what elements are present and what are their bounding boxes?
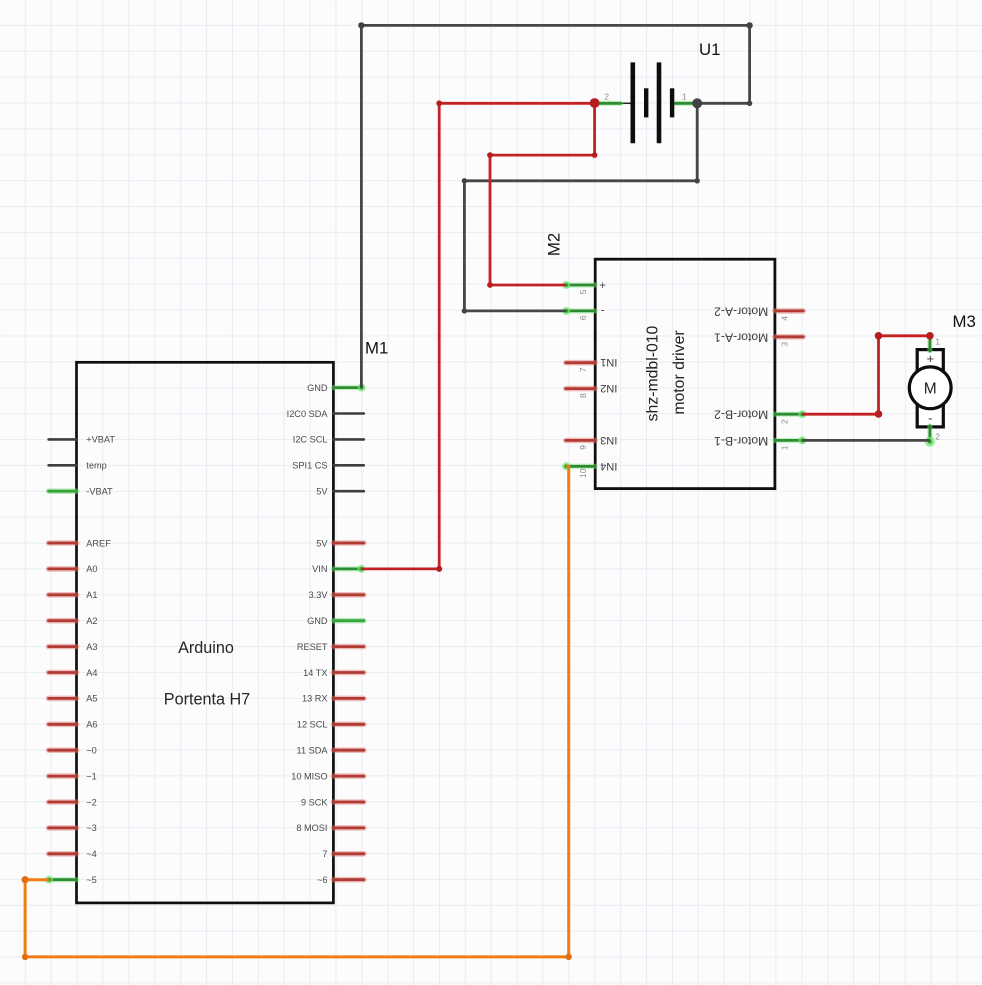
U1 pin number 2 bbox=[604, 92, 609, 102]
connection point M1 pin ~5 bbox=[45, 876, 53, 884]
reference designator M2 bbox=[545, 233, 564, 256]
svg-text:-: - bbox=[600, 304, 604, 316]
svg-text:GND: GND bbox=[307, 383, 328, 393]
svg-text:A5: A5 bbox=[86, 694, 97, 704]
M1 pin A5 bbox=[49, 694, 98, 704]
M1 pin ~1 bbox=[49, 771, 97, 781]
svg-text:M3: M3 bbox=[953, 312, 976, 331]
node bend top-right (dark) bbox=[746, 22, 752, 28]
M1 pin A6 bbox=[49, 720, 98, 730]
svg-text:~0: ~0 bbox=[86, 746, 96, 756]
U1 left lead line bbox=[620, 102, 632, 104]
svg-text:~2: ~2 bbox=[86, 797, 96, 807]
M2 pin 7 (IN1) bbox=[566, 356, 618, 372]
U1 pin 1 lead bbox=[674, 101, 696, 106]
node bend motor top-left (red) bbox=[875, 332, 883, 340]
connection point M1 GND bbox=[358, 384, 366, 392]
connection point M2 pin 2 bbox=[798, 410, 806, 418]
wire: battery U1 pin 2 to M2 pin 5 (red) bbox=[490, 103, 595, 285]
svg-text:Motor-A-2: Motor-A-2 bbox=[714, 304, 768, 318]
M1 pin 8 MOSI bbox=[296, 823, 363, 833]
wire: battery U1 pin 1 to M1 GND (dark) bbox=[361, 25, 749, 387]
battery plate long 1 bbox=[630, 62, 635, 143]
M1 pin ~2 bbox=[49, 797, 97, 807]
M1 pin 14 TX bbox=[303, 668, 364, 678]
M2 pin 8 (IN2) bbox=[566, 382, 618, 398]
svg-text:11 SDA: 11 SDA bbox=[297, 746, 329, 756]
M1 pin 12 SCL bbox=[297, 720, 364, 730]
M3 body bbox=[917, 350, 943, 427]
svg-text:~6: ~6 bbox=[317, 875, 327, 885]
svg-text:10: 10 bbox=[578, 468, 588, 478]
M1 pin A0 bbox=[49, 564, 98, 574]
svg-text:motor driver: motor driver bbox=[671, 330, 688, 414]
svg-text:10 MISO: 10 MISO bbox=[291, 771, 327, 781]
svg-text:M1: M1 bbox=[365, 339, 388, 358]
battery plate long 2 bbox=[657, 62, 662, 143]
M3 minus terminal label bbox=[928, 410, 932, 425]
DC motor M3 bbox=[909, 312, 976, 442]
M1 pin 13 RX bbox=[302, 694, 364, 704]
svg-text:RESET: RESET bbox=[297, 642, 328, 652]
svg-text:Motor-B-2: Motor-B-2 bbox=[714, 408, 768, 422]
M1 pin GND bbox=[307, 616, 364, 626]
svg-text:~5: ~5 bbox=[86, 875, 96, 885]
node bend bottom-left (orange) bbox=[22, 954, 28, 960]
M1 pin SPI1 CS bbox=[292, 461, 364, 471]
svg-text:5V: 5V bbox=[316, 538, 328, 548]
node junction battery pin 1 (dark) bbox=[692, 98, 702, 108]
svg-text:9: 9 bbox=[578, 445, 588, 450]
wire: M2 Motor-B-1 to M3 pin 2 (dark) bbox=[802, 439, 930, 442]
M3 pin 1 lead bbox=[927, 336, 932, 351]
svg-text:3.3V: 3.3V bbox=[309, 590, 329, 600]
U1 pin number 1 bbox=[682, 91, 687, 101]
svg-text:13 RX: 13 RX bbox=[302, 694, 328, 704]
node bend right (dark) bbox=[747, 101, 752, 106]
svg-text:IN1: IN1 bbox=[600, 356, 617, 368]
svg-text:IN2: IN2 bbox=[600, 382, 617, 394]
svg-text:4: 4 bbox=[779, 316, 789, 321]
connection point M2 pin 10 bbox=[562, 462, 570, 470]
svg-text:M: M bbox=[924, 380, 937, 397]
M3 pin number 2 bbox=[935, 432, 940, 442]
M3 rotor circle bbox=[909, 367, 951, 409]
svg-text:3: 3 bbox=[779, 342, 789, 347]
node bend pin5 (red) bbox=[487, 282, 493, 288]
M1 pin ~5 bbox=[49, 875, 96, 885]
M2 pin 4 (Motor-A-2) bbox=[714, 304, 803, 320]
battery plate short 1 bbox=[644, 88, 648, 117]
connection point M3 pin 2 bbox=[925, 437, 935, 447]
svg-text:7: 7 bbox=[578, 367, 588, 372]
reference designator M3 bbox=[953, 312, 976, 331]
svg-text:6: 6 bbox=[578, 315, 588, 320]
svg-text:7: 7 bbox=[322, 849, 327, 859]
wire: M2 Motor-B-2 to M3 pin 1 (red) bbox=[802, 336, 930, 414]
svg-text:+VBAT: +VBAT bbox=[86, 435, 115, 445]
M2 pin 9 (IN3) bbox=[566, 434, 618, 450]
M1 pin temp bbox=[49, 461, 107, 471]
M1 pin A2 bbox=[49, 616, 98, 626]
svg-text:I2C SCL: I2C SCL bbox=[293, 435, 328, 445]
svg-text:1: 1 bbox=[682, 91, 687, 101]
M1 pin I2C0 SDA bbox=[287, 409, 364, 419]
node bend VIN corner (red) bbox=[436, 566, 442, 572]
svg-text:A3: A3 bbox=[86, 642, 97, 652]
connection point M1 VIN bbox=[358, 565, 366, 573]
node junction battery pin 2 (red) bbox=[590, 98, 600, 108]
M1 pin RESET bbox=[297, 642, 364, 652]
svg-text:U1: U1 bbox=[699, 40, 720, 59]
svg-text:8 MOSI: 8 MOSI bbox=[296, 823, 327, 833]
svg-text:-: - bbox=[928, 410, 932, 425]
M1 pin 5V bbox=[316, 538, 364, 548]
node bend pin6 (dark) bbox=[462, 308, 467, 313]
microcontroller board M1 (Arduino Portenta H7) bbox=[49, 339, 389, 903]
reference designator U1 bbox=[699, 40, 720, 59]
svg-text:~4: ~4 bbox=[86, 849, 96, 859]
M3 plus terminal label bbox=[927, 351, 935, 366]
node bend mid (dark) bbox=[462, 178, 467, 183]
M2 pin 1 (Motor-B-1) bbox=[714, 434, 803, 450]
M2 pin 10 (IN4) bbox=[566, 460, 618, 478]
connection point M2 pin 6 bbox=[562, 307, 570, 315]
M2 part name text bbox=[645, 325, 688, 421]
svg-text:1: 1 bbox=[935, 337, 940, 347]
svg-text:M2: M2 bbox=[545, 233, 564, 256]
svg-text:Motor-A-1: Motor-A-1 bbox=[714, 330, 768, 344]
svg-text:A6: A6 bbox=[86, 720, 97, 730]
M1 pin A4 bbox=[49, 668, 98, 678]
M1 pin ~6 bbox=[317, 875, 364, 885]
M1 pin 3.3V bbox=[309, 590, 364, 600]
motor driver module M2 (shz-mdbl-010) bbox=[545, 233, 804, 489]
M1 pin GND bbox=[307, 383, 361, 393]
svg-text:5: 5 bbox=[578, 289, 588, 294]
svg-text:2: 2 bbox=[935, 432, 940, 442]
svg-text:Portenta H7: Portenta H7 bbox=[164, 691, 250, 709]
svg-text:A4: A4 bbox=[86, 668, 97, 678]
wire: battery U1 pin 1 to M2 pin 6 (dark) bbox=[464, 103, 697, 311]
svg-text:AREF: AREF bbox=[86, 538, 111, 548]
svg-text:A1: A1 bbox=[86, 590, 97, 600]
svg-text:5V: 5V bbox=[316, 487, 328, 497]
svg-text:I2C0 SDA: I2C0 SDA bbox=[287, 409, 329, 419]
svg-text:12 SCL: 12 SCL bbox=[297, 720, 328, 730]
M1 pin 9 SCK bbox=[301, 797, 364, 807]
M1 pin A1 bbox=[49, 590, 98, 600]
M1 pin -VBAT bbox=[49, 487, 113, 497]
M2 pin 6 (-) bbox=[566, 304, 605, 320]
svg-text:Arduino: Arduino bbox=[178, 639, 234, 657]
svg-text:Motor-B-1: Motor-B-1 bbox=[714, 434, 768, 448]
M1 pin VIN bbox=[312, 564, 361, 574]
node bend at pin ~5 (orange) bbox=[22, 876, 29, 883]
M1 board name text bbox=[164, 639, 250, 709]
wire: M1 pin ~5 to M2 IN4 (orange) bbox=[25, 466, 569, 957]
svg-text:SPI1 CS: SPI1 CS bbox=[292, 461, 327, 471]
svg-text:14 TX: 14 TX bbox=[303, 668, 327, 678]
battery U1 bbox=[596, 40, 721, 143]
svg-text:9 SCK: 9 SCK bbox=[301, 797, 328, 807]
svg-text:VIN: VIN bbox=[312, 564, 327, 574]
connection point M2 pin 1 bbox=[798, 436, 806, 444]
M1 pin A3 bbox=[49, 642, 98, 652]
svg-text:~1: ~1 bbox=[86, 771, 96, 781]
node bend VIN column top (red) bbox=[436, 100, 442, 106]
M1 pin +VBAT bbox=[49, 435, 116, 445]
M1 pin ~3 bbox=[49, 823, 97, 833]
M1 pin ~0 bbox=[49, 746, 97, 756]
reference designator M1 bbox=[365, 339, 388, 358]
M2 pin 2 (Motor-B-2) bbox=[714, 408, 803, 424]
M2 pin 3 (Motor-A-1) bbox=[714, 330, 803, 346]
wire: battery U1 pin 2 to M1 VIN (red) bbox=[362, 103, 595, 569]
M1 pin 7 bbox=[322, 849, 363, 859]
battery plate short 2 bbox=[670, 88, 674, 117]
svg-text:A2: A2 bbox=[86, 616, 97, 626]
connection point M2 pin 5 bbox=[562, 281, 570, 289]
svg-text:shz-mdbl-010: shz-mdbl-010 bbox=[645, 325, 662, 421]
svg-text:GND: GND bbox=[307, 616, 328, 626]
svg-text:+: + bbox=[599, 279, 605, 291]
svg-text:8: 8 bbox=[578, 393, 588, 398]
M1 pin 11 SDA bbox=[297, 746, 364, 756]
node bend motor B2 (red) bbox=[875, 410, 883, 418]
M2 pin 5 (+) bbox=[566, 279, 606, 295]
node bend top-left (dark) bbox=[358, 22, 364, 28]
svg-text:IN4: IN4 bbox=[600, 460, 617, 472]
node bend left (red) bbox=[487, 152, 493, 158]
svg-text:2: 2 bbox=[604, 92, 609, 102]
svg-text:temp: temp bbox=[86, 461, 106, 471]
U1 pin 2 lead bbox=[596, 101, 621, 106]
node bend below junction (red) bbox=[592, 152, 598, 158]
M3 pin 2 lead bbox=[927, 426, 932, 442]
M1 pin ~4 bbox=[49, 849, 97, 859]
svg-text:IN3: IN3 bbox=[600, 434, 617, 446]
svg-text:A0: A0 bbox=[86, 564, 97, 574]
M1 pin 5V bbox=[316, 487, 364, 497]
node bend below battery (dark) bbox=[695, 178, 700, 183]
M1 pin AREF bbox=[49, 538, 112, 548]
svg-text:2: 2 bbox=[779, 419, 789, 424]
svg-text:-VBAT: -VBAT bbox=[86, 487, 113, 497]
svg-text:~3: ~3 bbox=[86, 823, 96, 833]
M3 motor letter bbox=[924, 380, 937, 397]
M3 pin number 1 bbox=[935, 337, 940, 347]
M1 pin 10 MISO bbox=[291, 771, 364, 781]
node bend motor pin1 (red) bbox=[926, 332, 934, 340]
svg-text:1: 1 bbox=[779, 445, 789, 450]
node bend bottom-mid (orange) bbox=[566, 954, 572, 960]
M1 pin I2C SCL bbox=[293, 435, 364, 445]
